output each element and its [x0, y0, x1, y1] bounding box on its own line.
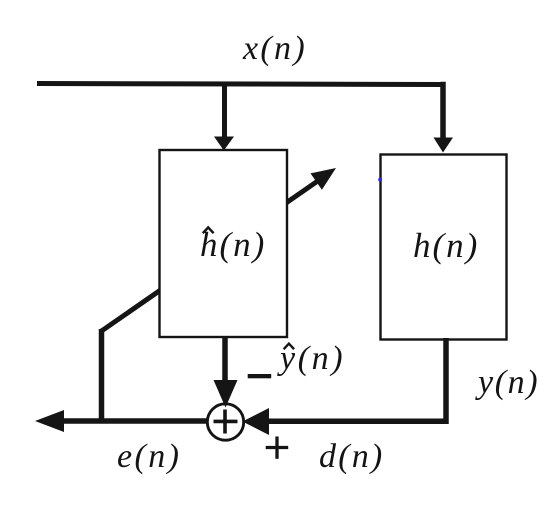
- svg-text:d(n): d(n): [319, 438, 384, 475]
- adaptive filter box H-hat: [160, 150, 288, 337]
- arrowhead y-hat into summer: [214, 380, 238, 408]
- blue artifact dot on box edge: [378, 178, 382, 182]
- arrowhead e(n) output (points left): [35, 410, 64, 432]
- wire e(n) output line: [62, 418, 209, 424]
- arrowhead into adaptive filter: [214, 137, 234, 151]
- summing junction circle: [207, 404, 243, 440]
- svg-text:h(n): h(n): [413, 226, 479, 265]
- svg-text:x(n): x(n): [242, 30, 307, 67]
- svg-text:e(n): e(n): [117, 438, 181, 475]
- arrowhead into unknown system: [434, 138, 454, 153]
- wire from x(n) bus to unknown system: [441, 85, 444, 140]
- plus sign at d(n) input: [266, 446, 289, 449]
- wire feedback vertical (error to adaptation): [99, 329, 105, 424]
- wire drop to adaptive filter: [222, 84, 227, 138]
- wire d(n) from unknown system to summer: [267, 338, 446, 421]
- minus sign at y-hat input: [248, 374, 272, 378]
- arrowhead d(n) into summer: [243, 408, 270, 435]
- wire y-hat into summer: [222, 336, 228, 383]
- svg-text:y(n): y(n): [475, 364, 539, 401]
- wire adaptation arrow (diagonal through filter box): [102, 173, 331, 332]
- wire x(n) bus (top horizontal line): [37, 84, 443, 85]
- unknown system box h(n): [381, 155, 507, 340]
- plus sign inside summer: [214, 420, 238, 424]
- arrowhead of adaptation arrow: [311, 168, 337, 190]
